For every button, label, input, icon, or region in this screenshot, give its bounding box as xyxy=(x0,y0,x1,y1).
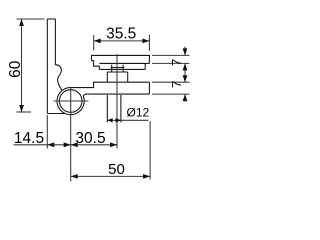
dimension 50: dimension line xyxy=(71,175,150,177)
dimension 7 upper: top extension line xyxy=(152,54,190,56)
top plate left end step xyxy=(92,61,100,70)
hole left edge extension line xyxy=(106,95,108,122)
wall bracket: bar right edge xyxy=(54,19,56,65)
dimension 60: bottom extension line xyxy=(17,111,32,113)
svg-text:14.5: 14.5 xyxy=(14,130,44,147)
screw nut right wall xyxy=(122,65,124,72)
svg-text:35.5: 35.5 xyxy=(106,25,136,42)
dimension 7 lower: dimension line below xyxy=(184,94,186,101)
screw nut top line xyxy=(111,67,125,69)
svg-text:7: 7 xyxy=(169,59,184,66)
dimension 35.5: left extension line xyxy=(93,35,95,51)
dimension 7 lower: top arrow xyxy=(183,75,188,82)
top clamp plate outline xyxy=(92,55,150,63)
svg-text:Ø12: Ø12 xyxy=(127,105,150,119)
svg-text:7: 7 xyxy=(169,81,184,88)
dimension 14.5/30.5: shared dimension line xyxy=(14,144,118,146)
spacer ring top line xyxy=(107,71,127,73)
svg-text:50: 50 xyxy=(108,161,125,178)
dimension 60: top arrow xyxy=(19,19,24,26)
dimension Ø12: right arrow xyxy=(116,118,121,122)
dimension 14.5: left extension line xyxy=(46,115,48,149)
dimension 7: dimension line between plates xyxy=(184,63,186,82)
dimension 35.5: dimension line xyxy=(94,40,150,42)
dimension 7 lower: top extension line xyxy=(152,81,190,83)
dimension 50: left arrow xyxy=(71,174,78,179)
dimension 7 upper: dimension line above xyxy=(184,47,186,56)
knuckle pivot circle xyxy=(59,90,82,113)
screw nut left wall xyxy=(111,65,113,72)
wall bracket: cradle lip arc to arm tangent xyxy=(62,87,71,90)
dimension 7 lower: bottom extension line xyxy=(152,93,190,95)
dimension 50: right extension line xyxy=(149,121,151,179)
svg-text:30.5: 30.5 xyxy=(75,130,105,147)
dimension Ø12: left arrow xyxy=(107,118,112,122)
dimension 7 lower: bottom arrow xyxy=(183,94,188,101)
dimension 30.5: right arrow xyxy=(110,142,117,147)
hole right edge extension line xyxy=(120,95,122,122)
dimension 35.5: right extension line xyxy=(148,35,150,51)
dimension 35.5: left arrow xyxy=(94,39,101,44)
boss right edge xyxy=(144,63,146,69)
wall bracket: bottom edge xyxy=(47,113,65,115)
boss bottom edge xyxy=(99,68,145,70)
dimension 50: right arrow xyxy=(143,174,150,179)
dimension 60: dimension line xyxy=(21,19,23,112)
svg-text:60: 60 xyxy=(7,60,24,78)
wall bracket: bar left edge xyxy=(46,19,48,114)
top plate bottom edge xyxy=(99,62,149,64)
dimension Ø12: dimension line xyxy=(107,119,148,121)
dimension 60: top extension line xyxy=(17,18,45,20)
spacer ring right wall xyxy=(127,72,129,82)
arm and bottom clamp plate outline xyxy=(71,82,150,96)
dimension 30.5: left arrow xyxy=(71,142,78,147)
wall bracket: ogee moulding profile and cradle outer arc xyxy=(55,65,84,115)
knuckle horizontal centerline xyxy=(54,100,89,102)
knuckle vertical centerline / extension xyxy=(70,88,72,182)
dimension 14.5: right arrow xyxy=(64,142,71,147)
dimension 7 upper: top arrow xyxy=(183,48,188,55)
wall bracket: bar top edge xyxy=(47,18,55,20)
spacer ring left wall xyxy=(106,72,108,82)
dimension 35.5: right arrow xyxy=(142,39,149,44)
dimension 60: bottom arrow xyxy=(19,105,24,112)
dimension 14.5: left arrow xyxy=(47,142,54,147)
stem/hole vertical centerline xyxy=(116,54,118,149)
dimension 7 upper: bottom extension line xyxy=(152,62,190,64)
dimension 7 upper: bottom arrow xyxy=(183,63,188,70)
